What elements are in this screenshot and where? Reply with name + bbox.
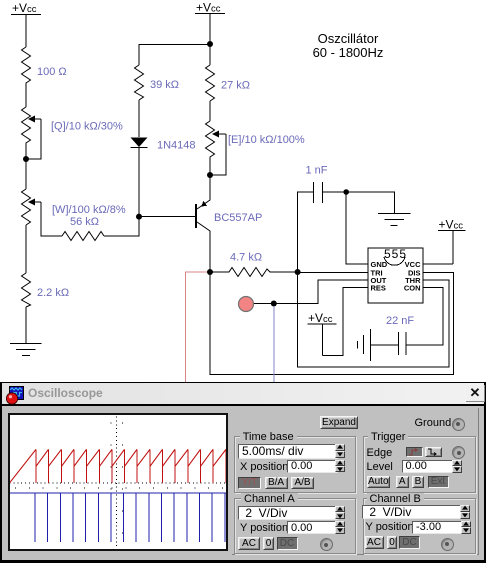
graticule channel A axis dotted bbox=[10, 483, 226, 488]
svg-text:+Vcc: +Vcc bbox=[439, 218, 464, 232]
potentiometer [E] 10kΩ bbox=[206, 121, 226, 158]
potentiometer [W] 100kΩ bbox=[22, 189, 42, 225]
node B junction bbox=[136, 214, 142, 220]
Expand button bbox=[320, 416, 358, 429]
svg-text:+Vcc: +Vcc bbox=[308, 311, 333, 325]
svg-text:1N4148: 1N4148 bbox=[157, 140, 196, 152]
svg-text:27 kΩ: 27 kΩ bbox=[221, 80, 250, 92]
capacitor C2 22nF bbox=[399, 332, 407, 355]
label +Vcc top-right bbox=[196, 1, 221, 15]
svg-text:+Vcc: +Vcc bbox=[196, 1, 221, 15]
resistor 4.7kΩ bbox=[210, 268, 298, 277]
Trigger group bbox=[363, 436, 476, 493]
wire pot Q wiper to node A bbox=[26, 119, 41, 159]
value label 4.7kΩ bbox=[230, 252, 262, 264]
wire collector to node D bbox=[209, 240, 211, 272]
wire +Vcc to 555 RES pin bbox=[323, 288, 368, 356]
capacitor C1 1nF bbox=[314, 182, 323, 203]
wire pot E wiper to node C bbox=[210, 134, 226, 175]
value label pot W bbox=[52, 204, 126, 216]
ground right bbox=[378, 214, 411, 226]
wire R56k to node B bbox=[104, 217, 139, 236]
IC U1 555 bbox=[368, 247, 423, 303]
ground C2 (rotated) bbox=[357, 329, 370, 361]
node F junction bbox=[343, 189, 349, 195]
label +Vcc top-left bbox=[12, 1, 37, 15]
wire +Vcc to 555 VCC pin bbox=[423, 263, 453, 265]
node D junction bbox=[207, 269, 213, 275]
value label 56kΩ bbox=[70, 216, 99, 228]
value label 39kΩ bbox=[150, 79, 179, 91]
label +Vcc mid bbox=[439, 218, 464, 232]
svg-text:[E]/10 kΩ/100%: [E]/10 kΩ/100% bbox=[228, 134, 305, 146]
wire node E up to C1 bbox=[298, 192, 314, 272]
wire +Vcc to R27k bbox=[209, 44, 211, 65]
trace channel A sawtooth bbox=[10, 449, 239, 483]
resistor 27kΩ bbox=[206, 65, 215, 101]
svg-text:60 - 1800Hz: 60 - 1800Hz bbox=[313, 45, 384, 60]
Time base group bbox=[234, 436, 356, 493]
node E junction bbox=[295, 269, 301, 275]
wire pot W wiper to R56k bbox=[41, 202, 62, 236]
controls panel bbox=[232, 408, 479, 555]
title icon bbox=[6, 385, 26, 405]
value label 1N4148 bbox=[157, 140, 196, 152]
potentiometer [Q] 10kΩ bbox=[22, 107, 42, 145]
node A junction bbox=[23, 156, 29, 162]
node G junction bbox=[271, 301, 277, 307]
svg-text:39 kΩ: 39 kΩ bbox=[150, 79, 179, 91]
value label 1nF bbox=[306, 165, 328, 177]
svg-text:CON: CON bbox=[404, 284, 421, 293]
resistor 100Ω bbox=[22, 47, 31, 85]
wire diode to node B bbox=[138, 148, 140, 217]
wire 555 OUT to node G bbox=[274, 280, 368, 304]
svg-text:100 Ω: 100 Ω bbox=[37, 66, 67, 78]
resistor 56kΩ bbox=[62, 232, 104, 241]
wire pot E to node C bbox=[209, 158, 211, 175]
power +Vcc right bbox=[438, 231, 466, 265]
wire R2.2k to ground bbox=[25, 307, 27, 343]
svg-text:1 nF: 1 nF bbox=[306, 165, 328, 177]
wire blue probe B bbox=[273, 306, 275, 382]
svg-text:BC557AP: BC557AP bbox=[214, 212, 262, 224]
wire R100 to pot Q bbox=[25, 85, 27, 107]
power +Vcc reset bbox=[308, 324, 337, 356]
connector output node bbox=[239, 297, 254, 312]
wire pot Q to pot W bbox=[25, 145, 27, 189]
Channel B group bbox=[363, 498, 476, 554]
value label 22nF bbox=[386, 315, 414, 327]
label +Vcc reset bbox=[308, 311, 333, 325]
value label pot Q bbox=[51, 121, 123, 133]
wire C2 to ground bbox=[370, 344, 398, 346]
power +Vcc top-left bbox=[11, 15, 41, 48]
ground left bbox=[10, 344, 42, 356]
wire 555 CON to C2 bbox=[406, 288, 443, 345]
close button bbox=[466, 385, 485, 402]
wire node F to ground bbox=[346, 192, 394, 213]
wire C1 to node F bbox=[323, 191, 347, 193]
svg-text:RES: RES bbox=[371, 284, 386, 293]
resistor 2.2kΩ bbox=[22, 273, 31, 307]
svg-text:56 kΩ: 56 kΩ bbox=[70, 216, 99, 228]
svg-text:2.2 kΩ: 2.2 kΩ bbox=[37, 287, 69, 299]
svg-text:Oszcillátor: Oszcillátor bbox=[318, 31, 379, 46]
svg-text:555: 555 bbox=[384, 247, 407, 261]
wire R39k to diode bbox=[138, 100, 140, 137]
value label pot E bbox=[228, 134, 305, 146]
svg-text:[Q]/10 kΩ/30%: [Q]/10 kΩ/30% bbox=[51, 121, 123, 133]
value label 100Ω bbox=[37, 66, 67, 78]
wire DIS loop node D to 555 bbox=[210, 272, 454, 374]
diode 1N4148 bbox=[131, 138, 148, 148]
trace channel B pulses bbox=[10, 493, 227, 542]
value label 27kΩ bbox=[221, 80, 250, 92]
svg-text:4.7 kΩ: 4.7 kΩ bbox=[230, 252, 262, 264]
wire THR loop node E to 555 bbox=[298, 272, 449, 367]
wire TRI node E to 555 bbox=[298, 272, 368, 274]
power +Vcc top-right bbox=[195, 14, 225, 45]
node top junction bbox=[207, 41, 213, 47]
wire top junction to R39k bbox=[139, 45, 210, 66]
svg-text:+Vcc: +Vcc bbox=[12, 1, 37, 15]
title bar bbox=[2, 383, 484, 406]
wire red probe A bbox=[186, 272, 207, 382]
Channel A group bbox=[234, 498, 356, 554]
wire pot W to R2.2k bbox=[25, 225, 27, 273]
wire node F to 555 GND pin bbox=[346, 192, 368, 264]
transistor Q1 BC557AP bbox=[196, 175, 210, 240]
wire node B to transistor base bbox=[139, 216, 195, 218]
value label BC557AP bbox=[214, 212, 262, 224]
value label 2.2kΩ bbox=[37, 287, 69, 299]
node C junction bbox=[207, 172, 213, 178]
svg-text:[W]/100 kΩ/8%: [W]/100 kΩ/8% bbox=[52, 204, 126, 216]
resistor 39kΩ bbox=[135, 65, 144, 100]
graticule center dotted line bbox=[111, 417, 123, 548]
scope display bbox=[8, 413, 228, 551]
svg-text:22 nF: 22 nF bbox=[386, 315, 414, 327]
wire node G to output connector bbox=[254, 303, 274, 305]
OSCILLOSCOPE WINDOW bbox=[0, 382, 486, 563]
wire R27k to pot E bbox=[209, 101, 211, 121]
title text bbox=[313, 31, 384, 60]
